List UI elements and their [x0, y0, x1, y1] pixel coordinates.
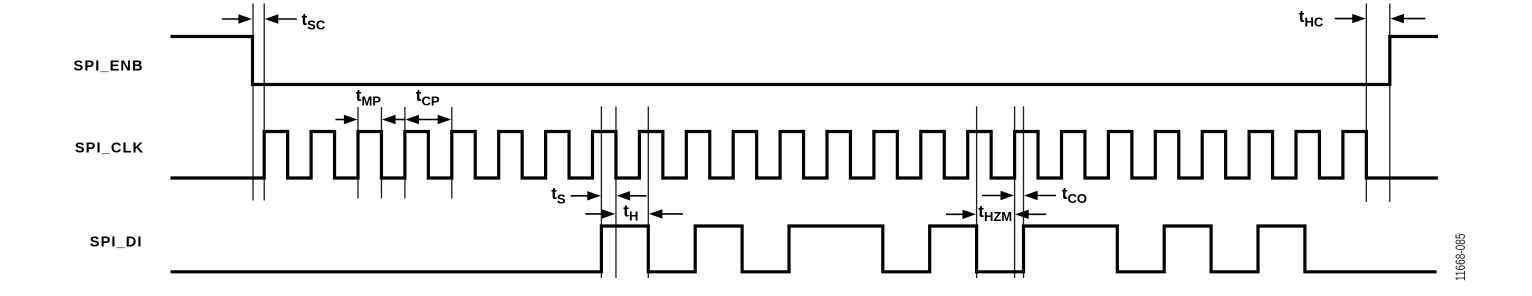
- tHC left marker (last SPI_CLK falling edge): [1365, 4, 1367, 203]
- SPI_ENB waveform trace: [171, 37, 1439, 85]
- tCP left marker (SPI_CLK rising edge): [404, 107, 406, 198]
- tH right marker (SPI_DI transition): [647, 106, 649, 278]
- svg-text:SPI_ENB: SPI_ENB: [74, 59, 144, 75]
- tSC left-pointing dimension arrow: [276, 18, 297, 20]
- svg-text:SPI_DI: SPI_DI: [90, 234, 143, 250]
- tHC right marker (SPI_ENB rising edge): [1389, 4, 1391, 203]
- tS right-pointing dimension arrow: [571, 195, 590, 197]
- tCO left-pointing dimension arrow: [1036, 195, 1057, 197]
- tSC left marker (SPI_ENB falling edge): [252, 4, 254, 201]
- tMP left marker (SPI_CLK rising edge): [357, 107, 359, 198]
- tS/tH middle marker (SPI_CLK falling edge): [615, 106, 617, 278]
- tCO right-pointing dimension arrow: [982, 195, 1003, 197]
- tMP right marker (SPI_CLK falling edge): [380, 107, 382, 198]
- tHZM/tCO middle marker (SPI_CLK rising edge): [1014, 106, 1016, 278]
- tS left marker (SPI_DI transition): [600, 106, 602, 278]
- tCP right marker (next SPI_CLK rising edge): [451, 107, 453, 198]
- SPI_DI waveform trace: [171, 226, 1437, 272]
- tMP left-pointing dimension arrow: [394, 119, 406, 121]
- tH right-pointing dimension arrow: [585, 213, 604, 215]
- tSC right marker (first SPI_CLK rising edge): [263, 4, 265, 201]
- tHC left-pointing dimension arrow: [1402, 18, 1426, 20]
- tSC right-pointing dimension arrow: [222, 18, 241, 20]
- tCO right marker (SPI_DI rising edge): [1023, 106, 1025, 278]
- tS left-pointing dimension arrow: [628, 195, 647, 197]
- svg-text:11668-085: 11668-085: [1452, 233, 1468, 281]
- tHC right-pointing dimension arrow: [1335, 18, 1355, 20]
- tMP right-pointing dimension arrow: [335, 119, 346, 121]
- tHZM right-pointing dimension arrow: [946, 213, 965, 215]
- SPI_CLK waveform trace: [171, 132, 1438, 179]
- tHZM left marker (SPI_DI falling edge): [976, 106, 978, 278]
- tCP double-headed dimension arrow: [408, 119, 450, 121]
- tH left-pointing dimension arrow: [660, 213, 683, 215]
- svg-text:SPI_CLK: SPI_CLK: [75, 140, 144, 156]
- tHZM left-pointing dimension arrow: [1027, 213, 1047, 215]
